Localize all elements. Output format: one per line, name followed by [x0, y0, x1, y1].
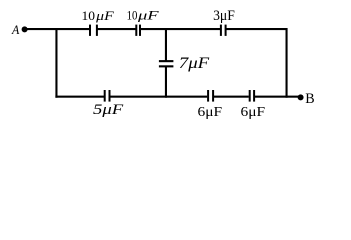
capacitor C6 6uF left plate [207, 90, 209, 102]
capacitor C1 10uF right plate [96, 25, 98, 36]
svg-text:A: A [11, 22, 19, 37]
capacitor C5 5uF left plate [104, 90, 106, 102]
wire: left vertical branch from top wire to bottom wire [55, 28, 57, 98]
capacitor C2 10uF right plate [139, 25, 141, 36]
svg-text:3μF: 3μF [213, 8, 235, 24]
wire: right vertical from top-right corner to bottom wire [286, 28, 288, 98]
capacitor C1 10uF left plate [89, 25, 91, 36]
capacitor C5 5uF right plate [109, 90, 111, 102]
capacitor C4 7uF top plate [159, 60, 174, 62]
capacitor C4 7uF bottom plate [159, 65, 174, 67]
node A terminal dot [22, 26, 28, 32]
svg-text:μF: μF [95, 9, 114, 23]
capacitor C3 3uF right plate [225, 25, 227, 36]
node B terminal dot [298, 94, 304, 100]
svg-text:6μF: 6μF [198, 105, 223, 120]
wire: C7 to node B (bottom branch) [255, 96, 301, 98]
wire: C3 to top-right corner (top branch) [226, 28, 287, 30]
wire: bottom-left corner to C5 (bottom branch) [55, 96, 104, 98]
svg-text:μF: μF [137, 9, 159, 23]
wire: C5 through 7uF junction to C6 (bottom branch) [110, 96, 207, 98]
capacitor C3 3uF left plate [220, 25, 222, 36]
svg-text:7μF: 7μF [179, 55, 210, 72]
svg-text:10: 10 [127, 9, 138, 23]
wire: C1 to C2 (top branch) [97, 28, 135, 30]
wire: 7uF lower lead [165, 67, 167, 98]
wire: A to C1 left plate (top branch) [25, 28, 90, 30]
svg-text:5μF: 5μF [93, 102, 123, 118]
capacitor C7 6uF left plate [249, 90, 251, 102]
wire: 7uF upper lead [165, 28, 167, 61]
wire: C6 to C7 (bottom branch) [214, 96, 249, 98]
capacitor C2 10uF left plate [135, 25, 137, 36]
wire: C2 through 7uF junction to C3 (top branch) [141, 28, 221, 30]
svg-text:B: B [305, 91, 314, 107]
capacitor C7 6uF right plate [253, 90, 255, 102]
svg-text:6μF: 6μF [241, 105, 266, 120]
svg-text:10: 10 [82, 9, 96, 23]
capacitor C6 6uF right plate [212, 90, 214, 102]
